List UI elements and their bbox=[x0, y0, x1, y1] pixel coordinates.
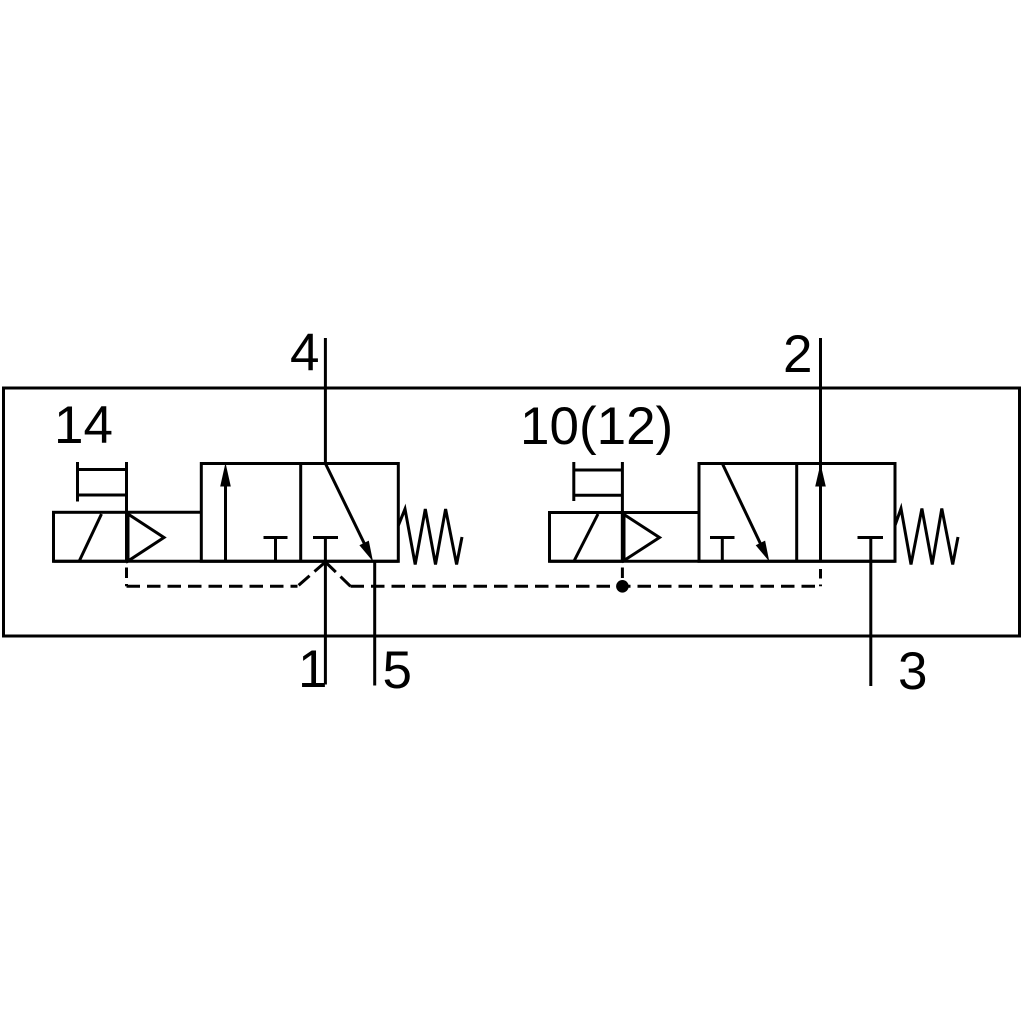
svg-text:5: 5 bbox=[383, 641, 412, 700]
valve V1 blocked port T right bar bbox=[313, 536, 338, 539]
valve V2 blocked port T right bar bbox=[858, 536, 884, 539]
solenoid coil 14 diagonal bbox=[80, 514, 102, 561]
valve V2 diagonal arrow head bbox=[756, 541, 770, 562]
solenoid coil 10 diagonal bbox=[574, 514, 598, 561]
svg-text:3: 3 bbox=[898, 642, 927, 701]
solenoid coil 10 connector left pin bbox=[572, 462, 575, 501]
solenoid coil 14 right vertical bbox=[125, 462, 128, 561]
solenoid coil 14 connector bottom line bbox=[78, 494, 127, 497]
port 2 line bbox=[819, 338, 822, 563]
manifold block outline bbox=[4, 388, 1020, 636]
valve V1 blocked port T left bbox=[264, 536, 288, 539]
pilot line horizontal right bbox=[351, 585, 821, 588]
pilot amplifier triangle V1 bbox=[128, 514, 164, 561]
valve V2 body bbox=[699, 464, 895, 562]
valve V1 diagonal arrow head bbox=[359, 541, 373, 562]
pilot amplifier triangle V2 bbox=[624, 515, 660, 561]
svg-text:4: 4 bbox=[290, 324, 319, 383]
port 4 line bbox=[324, 338, 327, 464]
pilot junction dot bbox=[616, 580, 629, 593]
solenoid coil 10 connector bottom line bbox=[574, 494, 623, 497]
valve V2 blocked port T left bbox=[710, 536, 735, 539]
link top edge V1 bbox=[127, 511, 202, 514]
port 3 line bbox=[869, 538, 872, 687]
pilot line from coil 14 vertical bbox=[125, 562, 128, 587]
pilot line to port 2 vertical bbox=[819, 563, 822, 586]
solenoid coil 14 box bbox=[54, 512, 127, 561]
valve V1 diagonal flow line bbox=[325, 464, 367, 550]
valve V2 flow arrow up head bbox=[815, 464, 826, 487]
solenoid coil 10 connector top line bbox=[574, 469, 623, 472]
valve V1 bottom edge extension bbox=[54, 560, 399, 563]
valve V2 bottom edge extension bbox=[550, 560, 896, 563]
valve V2 diagonal flow line bbox=[722, 464, 763, 550]
valve V1 flow arrow up line bbox=[224, 483, 227, 561]
pilot line from coil 10 vertical bbox=[621, 562, 624, 587]
svg-text:10(12): 10(12) bbox=[520, 397, 673, 456]
return spring V2 bbox=[895, 509, 958, 565]
valve V1 body bbox=[201, 464, 398, 562]
solenoid coil 14 connector left pin bbox=[76, 462, 79, 502]
port 1 line bbox=[324, 538, 327, 685]
svg-text:1: 1 bbox=[298, 640, 327, 699]
solenoid coil 14 connector top line bbox=[78, 468, 127, 471]
pilot tent left segment bbox=[298, 562, 326, 586]
port 5 line bbox=[373, 561, 376, 685]
valve V1 flow arrow up head bbox=[220, 463, 231, 487]
link top edge V2 bbox=[622, 511, 699, 514]
solenoid coil 10 right vertical bbox=[621, 462, 624, 561]
return spring V1 bbox=[398, 509, 462, 565]
svg-text:2: 2 bbox=[783, 325, 812, 384]
solenoid coil 10 box bbox=[550, 513, 623, 562]
valve V1 divider bbox=[299, 464, 302, 562]
pilot line horizontal left bbox=[127, 585, 298, 588]
svg-text:14: 14 bbox=[54, 396, 113, 455]
pilot tent right segment bbox=[325, 562, 350, 586]
valve V2 divider bbox=[795, 464, 798, 562]
